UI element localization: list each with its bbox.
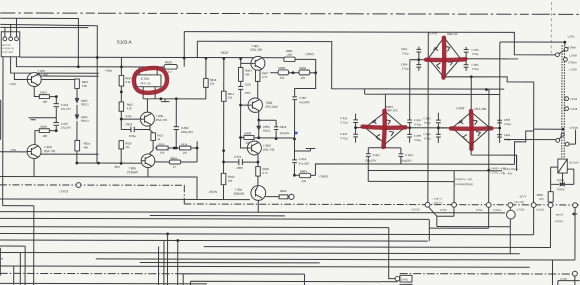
resistor R810: [164, 64, 177, 69]
node dot: [437, 126, 440, 129]
svg-text:22k: 22k: [300, 76, 305, 80]
section border chain line vertical right: [550, 2, 552, 53]
svg-text:LY5/3: LY5/3: [570, 107, 578, 111]
frame box bottom center: [183, 274, 398, 285]
emitter to R817: [150, 125, 153, 133]
svg-text:1000: 1000: [236, 166, 243, 170]
svg-text:30k: 30k: [228, 179, 233, 183]
svg-text:C 825: C 825: [61, 122, 69, 126]
switch contact 2 Ohm: [564, 58, 568, 62]
diode D804: [257, 120, 261, 138]
right vertex wire to D802: [404, 127, 452, 129]
capacitor C820: [238, 87, 243, 90]
connector LY5/13b: [508, 203, 513, 208]
svg-text:6.2k: 6.2k: [127, 106, 133, 110]
emitter wire: [258, 111, 260, 120]
left caps column C816 C815: [353, 114, 365, 143]
svg-text:330μ/25V: 330μ/25V: [365, 159, 377, 163]
bottom vertex to caps C812 C813: [366, 144, 403, 182]
svg-text:-30.6V: -30.6V: [208, 190, 217, 194]
svg-text:→+25,7V: →+25,7V: [431, 201, 442, 205]
capacitor C823: [121, 127, 150, 133]
node dot: [222, 149, 225, 152]
node dot: [314, 71, 317, 74]
capacitor C818: [292, 160, 297, 175]
svg-text:100: 100: [42, 134, 47, 138]
resistor R809: [256, 167, 261, 177]
svg-text:47μ/50V: 47μ/50V: [299, 100, 310, 104]
svg-text:C805: C805: [504, 118, 511, 122]
svg-text:C 802: C 802: [472, 63, 480, 67]
blue mark: [295, 132, 298, 135]
svg-text:R824: R824: [84, 142, 91, 146]
switch S2 pivot: [556, 138, 560, 142]
transistor T804 2SB560: [251, 186, 266, 213]
svg-text:R810: R810: [165, 60, 173, 64]
right caps column C805 C806 and feed from top: [490, 42, 502, 143]
svg-text:LY5/15: LY5/15: [555, 219, 564, 223]
diode D806: [75, 115, 79, 141]
section border chain line top: [0, 13, 580, 14]
connector LY5/4: [486, 203, 491, 208]
svg-text:10μ16V: 10μ16V: [280, 131, 290, 135]
node dot: [292, 71, 295, 74]
connector LY5/2: [565, 97, 569, 101]
IC801 bottom pins: [143, 87, 206, 99]
C801 C802 column: [464, 47, 469, 71]
C824 column: [53, 97, 59, 123]
wire B top left: [0, 24, 97, 163]
svg-text:C819: C819: [280, 125, 287, 129]
bridge rectifier D803 DBA100: [365, 112, 404, 144]
node dot: [498, 127, 501, 130]
wire +76V rail: [11, 57, 99, 73]
second long wire y41 to right: [197, 41, 504, 89]
svg-text:RS-N7V: RS-N7V: [569, 161, 579, 165]
svg-text:22k: 22k: [302, 179, 307, 183]
node dot: [120, 118, 123, 121]
top vertex wire: [470, 77, 472, 112]
svg-text:arr/7a: arr/7a: [556, 213, 563, 217]
connector LR4/2 pin: [395, 276, 400, 281]
svg-text:2SC1345: 2SC1345: [265, 105, 278, 109]
R811b right of T804: [265, 196, 288, 198]
chain line mid: [184, 203, 580, 206]
svg-text:(-56V): (-56V): [320, 174, 329, 178]
node dot: [160, 97, 163, 100]
transistor T808 2SA733: [27, 145, 41, 159]
svg-text:0.01μ: 0.01μ: [402, 51, 409, 55]
node dot: [257, 136, 260, 139]
svg-text:C 824: C 824: [61, 103, 69, 107]
node dot: [257, 119, 260, 122]
bottom vertex wire: [444, 77, 534, 203]
red marker oval around IC801: [133, 67, 167, 93]
ground IC: [164, 99, 166, 102]
-65V rail: [77, 162, 141, 164]
svg-text:R803: R803: [245, 69, 252, 73]
resistor R807: [257, 70, 259, 98]
node dot: [55, 95, 58, 98]
resistor R802 22k: [289, 72, 316, 74]
svg-text:D 802: D 802: [456, 106, 464, 110]
svg-text:R803: R803: [278, 66, 285, 70]
R813 R814 row: [155, 141, 197, 162]
bridge rectifier D801 DBA40: [428, 37, 460, 77]
node dot: [173, 147, 176, 150]
connector node T804 output: [289, 194, 294, 199]
svg-text:C 815: C 815: [340, 132, 348, 136]
pin stubs: [5, 18, 17, 37]
svg-text:330μ/25V: 330μ/25V: [400, 159, 412, 163]
node dot: [417, 58, 420, 61]
wire top vertex into bridge: [427, 32, 429, 202]
emitter to R809: [257, 154, 259, 167]
C822 column: [174, 99, 180, 148]
switch S2 contact: [561, 133, 564, 136]
svg-text:er: er: [1, 257, 4, 261]
svg-text:0.01μ: 0.01μ: [129, 134, 136, 138]
svg-text:(41,8(4/2Ohm)): (41,8(4/2Ohm)): [455, 182, 473, 186]
transistor T805 2SA733: [140, 99, 154, 126]
node dot: [408, 126, 411, 129]
svg-text:LR4/2: LR4/2: [401, 277, 408, 281]
resistor R804: [294, 174, 315, 176]
svg-text:LY5/1: LY5/1: [568, 35, 576, 39]
svg-text:C 810: C 810: [414, 118, 422, 122]
bottom vertex wire D802: [471, 145, 517, 171]
chain line bottom left: [0, 272, 183, 274]
C803 C804 column: [416, 47, 421, 71]
svg-text:10k: 10k: [183, 151, 188, 155]
R820 column: [119, 141, 124, 149]
connector LY4/2: [572, 271, 577, 276]
connector circle LY5/13: [76, 183, 81, 188]
node dot: [77, 65, 80, 68]
node dot: [183, 57, 186, 60]
base wire T807: [14, 73, 27, 80]
svg-text:R802: R802: [299, 66, 306, 70]
R803a 14k column + C820: [240, 59, 242, 105]
mid wires right lower: [368, 89, 517, 205]
node dot: [257, 161, 260, 164]
resistor R803 22k: [270, 72, 278, 74]
transistor T807 2SC965: [27, 73, 41, 97]
node dot: [239, 136, 242, 139]
chain line bottom right: [400, 273, 573, 275]
wire left vertex to caps: [410, 60, 429, 113]
red cross on D802: [451, 126, 492, 131]
svg-text:LY5/2: LY5/2: [570, 97, 578, 101]
svg-text:R814: R814: [181, 142, 188, 146]
node dot: [222, 161, 225, 164]
resistor R824: [75, 140, 80, 151]
svg-text:10k: 10k: [160, 151, 165, 155]
resistor R823: [39, 129, 49, 133]
wire to IC801: [16, 57, 164, 67]
svg-text:R804: R804: [300, 169, 307, 173]
resistor R826: [550, 184, 552, 205]
svg-text:DBA 10C: DBA 10C: [386, 108, 398, 112]
connector block J801: [1, 32, 20, 57]
base wire T801: [241, 62, 251, 64]
svg-text:LY5/13: LY5/13: [493, 208, 502, 212]
svg-text:0.01μ: 0.01μ: [504, 122, 511, 126]
node dot: [222, 57, 225, 60]
node dot: [175, 97, 178, 100]
connector LY5/12: [548, 203, 553, 208]
node dot: [293, 174, 296, 177]
svg-text:100: 100: [42, 100, 47, 104]
node dot: [75, 162, 78, 165]
svg-text:2SB560: 2SB560: [127, 170, 138, 174]
svg-text:→+167 V: →+167 V: [431, 197, 442, 201]
pin circle 2: [9, 37, 13, 41]
svg-text:R818: R818: [210, 78, 217, 82]
transistor T806 2SB560: [141, 154, 155, 177]
wire through R808 row: [241, 137, 295, 139]
resistor R808: [244, 136, 254, 140]
svg-text:R821: R821: [82, 80, 89, 84]
svg-text:(W1(2 Ohm): (W1(2 Ohm): [503, 167, 517, 171]
svg-text:C823: C823: [125, 122, 132, 126]
svg-text:→19,7V: →19,7V: [517, 194, 527, 198]
node dot: [96, 56, 99, 59]
svg-text:(-56V): (-56V): [305, 52, 314, 56]
node dot: [275, 137, 278, 140]
switch contact 4 Ohm: [564, 47, 568, 51]
svg-text:R815: R815: [158, 142, 165, 146]
svg-text:LY5/9: LY5/9: [569, 68, 577, 72]
svg-text:1000: 1000: [244, 91, 250, 95]
svg-text:10μ 16V: 10μ 16V: [61, 107, 71, 111]
svg-text:R817: R817: [157, 133, 164, 137]
bus line lower mid: [150, 215, 285, 217]
node dot: [97, 162, 100, 165]
resistor R815: [119, 102, 124, 111]
svg-text:2SA 733: 2SA 733: [156, 118, 168, 122]
node dot: [120, 90, 123, 93]
collector wires right: [41, 76, 99, 80]
svg-text:OS/05: OS/05: [557, 187, 565, 191]
svg-text:LY5/8: LY5/8: [570, 54, 578, 58]
capacitor C821: [224, 159, 258, 165]
bus line out left: [0, 177, 250, 200]
svg-text:D805: D805: [81, 99, 88, 103]
svg-text:75k: 75k: [125, 145, 130, 149]
svg-text:-65V: -65V: [114, 165, 120, 169]
svg-text:R816: R816: [171, 156, 178, 160]
svg-text:C 812: C 812: [373, 153, 381, 157]
capacitor C819: [259, 120, 279, 139]
node dot: [166, 232, 169, 235]
svg-text:R826: R826: [537, 193, 544, 197]
svg-text:6.8k: 6.8k: [82, 84, 88, 88]
pin circle 3: [15, 37, 19, 41]
svg-text:LY5/13: LY5/13: [59, 189, 68, 193]
svg-text:R808: R808: [280, 189, 287, 193]
long top wire to switch: [184, 32, 555, 55]
top vertex routing: [365, 89, 500, 112]
node dot: [176, 239, 179, 242]
svg-text:C803: C803: [401, 47, 408, 51]
base wire T802: [241, 104, 248, 106]
stub x197: [196, 41, 198, 57]
bottom right corner: [552, 260, 579, 285]
red cross on D801: [426, 57, 465, 62]
node dot: [196, 147, 199, 150]
connector LY5/6: [452, 202, 457, 207]
svg-text:10μ 16V: 10μ 16V: [61, 126, 71, 130]
svg-text:4 Ohm: 4 Ohm: [568, 45, 577, 49]
+32V rail: [20, 56, 284, 59]
svg-text:C 818: C 818: [299, 157, 307, 161]
node dot: [354, 126, 357, 129]
connector LY5/3: [565, 107, 569, 111]
svg-text:C806: C806: [504, 133, 511, 137]
node dot: [120, 162, 123, 165]
left edge fragments: [0, 100, 2, 276]
chain line left with connector: [0, 185, 184, 204]
resistor R801 220: [284, 57, 295, 62]
svg-text:0.01μ: 0.01μ: [414, 138, 421, 142]
svg-text:R808: R808: [244, 132, 251, 136]
bottom left frame boxes: [0, 206, 34, 285]
node dot: [561, 183, 564, 186]
svg-text:RD5.2: RD5.2: [81, 102, 89, 106]
svg-text:C 821: C 821: [234, 155, 242, 159]
svg-text:2SB560: 2SB560: [234, 192, 245, 196]
svg-text:22k: 22k: [280, 76, 285, 80]
node dot: [239, 104, 242, 107]
node dot: [293, 138, 296, 141]
svg-text:D806: D806: [81, 115, 88, 119]
svg-text:0.01μ: 0.01μ: [472, 67, 479, 71]
svg-text:LY5/4: LY5/4: [476, 208, 483, 212]
svg-text:2SD 438: 2SD 438: [250, 48, 262, 52]
svg-text:C820: C820: [244, 83, 251, 87]
svg-text:R823: R823: [40, 125, 47, 129]
svg-text:LY5/6: LY5/6: [440, 208, 447, 212]
speaker coil column: [562, 45, 565, 159]
svg-text:R809: R809: [263, 167, 270, 171]
node dot: [55, 129, 58, 132]
svg-text:DBA 100: DBA 100: [474, 107, 486, 111]
jog down to C807: [295, 73, 316, 97]
svg-text:4.7: 4.7: [168, 70, 173, 74]
node dot: [487, 169, 490, 172]
node dot: [563, 41, 566, 44]
node dot: [470, 75, 473, 78]
svg-text:LY5/12: LY5/12: [536, 207, 545, 211]
switch S2 throw contact: [565, 142, 569, 146]
svg-text:RD12: RD12: [263, 129, 271, 133]
svg-text:2SA 733: 2SA 733: [44, 149, 56, 153]
svg-text:0.01μ: 0.01μ: [341, 136, 348, 140]
node dot: [257, 56, 260, 59]
svg-text:RD5.2: RD5.2: [81, 119, 89, 123]
node coil tap: [562, 128, 565, 131]
node dot: [465, 57, 468, 60]
relay wiring loop: [551, 167, 574, 184]
R816a column (T805 base): [120, 57, 122, 75]
svg-text:100μ 25V: 100μ 25V: [181, 130, 193, 134]
switch S1 pivot 4 Ohm: [556, 53, 560, 57]
connector LY5/10: [425, 202, 430, 207]
wire y41 right with node: [500, 42, 565, 45]
svg-text:D 801: D 801: [429, 31, 437, 35]
svg-text:C 816: C 816: [340, 116, 348, 120]
svg-text:V 1Y 5Y6: V 1Y 5Y6: [2, 50, 13, 54]
svg-text:LY5/10: LY5/10: [411, 207, 420, 211]
svg-text:47: 47: [173, 165, 177, 169]
wire C top left: [0, 26, 88, 28]
transistor T802 2SC1345: [248, 98, 263, 112]
svg-text:+32V: +32V: [220, 51, 229, 55]
svg-text:R820: R820: [125, 141, 132, 145]
resistor R822: [39, 95, 49, 99]
svg-text:C 809: C 809: [414, 134, 422, 138]
T803 base column: [241, 105, 248, 148]
svg-text:+76 0V 76: +76 0V 76: [2, 46, 14, 50]
node dot: [205, 57, 208, 60]
ground branch: [294, 149, 310, 151]
long mid wire right: [315, 164, 514, 176]
left caps column C808 C807b: [436, 113, 452, 143]
left border wire: [2, 57, 4, 206]
svg-text:(+65PV)→+2V: (+65PV)→+2V: [455, 177, 472, 181]
svg-text:47μ 50V: 47μ 50V: [299, 161, 310, 165]
svg-text:100: 100: [539, 197, 544, 201]
switch lower: [534, 128, 563, 130]
svg-text:30k: 30k: [228, 96, 233, 100]
svg-text:0.01μ: 0.01μ: [424, 136, 431, 140]
svg-text:78-H 15: 78-H 15: [140, 81, 151, 85]
node dot: [239, 57, 242, 60]
svg-text:(1 ~42V: (1 ~42V: [503, 171, 512, 175]
svg-text:IC 801: IC 801: [141, 77, 150, 81]
diode D805: [75, 99, 79, 115]
relay RS: [558, 159, 567, 173]
diode D806b: [563, 182, 565, 186]
svg-text:0.01μ: 0.01μ: [341, 120, 348, 124]
svg-text:10k: 10k: [210, 81, 215, 85]
svg-text:2SA 733: 2SA 733: [263, 148, 275, 152]
svg-text:0.01μ: 0.01μ: [402, 67, 409, 71]
bridge rectifier D802 DBA100: [452, 112, 490, 145]
svg-text:4.7k: 4.7k: [262, 75, 268, 79]
right vertex wire: [460, 58, 518, 60]
svg-text:0.01μ: 0.01μ: [472, 52, 479, 56]
svg-text:68k: 68k: [84, 145, 89, 149]
svg-text:C 801: C 801: [472, 48, 480, 52]
capacitor C807: [292, 97, 297, 160]
svg-text:R811: R811: [228, 92, 235, 96]
capacitor C825: [53, 122, 59, 130]
svg-text:R815: R815: [127, 103, 134, 107]
svg-text:6.2k: 6.2k: [125, 80, 131, 84]
node dot: [120, 65, 123, 68]
svg-text:S103 A: S103 A: [117, 40, 133, 45]
svg-text:+76V: +76V: [9, 82, 16, 86]
svg-text:C804: C804: [401, 62, 408, 66]
vertical from top wire to R810: [183, 32, 185, 67]
svg-text:R807: R807: [262, 71, 269, 75]
svg-text:LY5/11: LY5/11: [517, 207, 525, 211]
transistor T801 2SD438: [251, 56, 265, 70]
svg-text:0.01μ: 0.01μ: [414, 122, 421, 126]
red cross on D803: [363, 127, 406, 128]
